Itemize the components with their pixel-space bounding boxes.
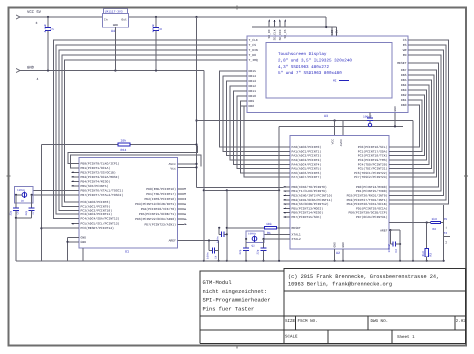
svg-text:PB4(PCINT4/MISO): PB4(PCINT4/MISO) (81, 179, 111, 183)
svg-text:10k: 10k (121, 139, 127, 143)
svg-text:SIZE: SIZE (285, 319, 296, 324)
svg-text:DB12: DB12 (249, 84, 257, 88)
svg-text:DB9: DB9 (249, 99, 255, 103)
svg-text:16MHz: 16MHz (248, 233, 256, 236)
svg-text:4,3" SSD1963 480x272: 4,3" SSD1963 480x272 (278, 64, 329, 70)
svg-text:RESET: RESET (292, 226, 301, 230)
svg-text:PD0(RXD/PCINT16): PD0(RXD/PCINT16) (146, 187, 176, 191)
svg-text:GND: GND (27, 66, 35, 71)
svg-text:U4: U4 (111, 29, 115, 34)
svg-text:VCC 5V: VCC 5V (27, 10, 42, 15)
svg-text:Vcc: Vcc (170, 167, 176, 171)
svg-text:PB3(PCINT3/OC2A/MOSI): PB3(PCINT3/OC2A/MOSI) (81, 175, 120, 179)
svg-text:GND: GND (342, 242, 345, 248)
svg-text:DB2: DB2 (401, 93, 407, 97)
svg-text:GND: GND (81, 240, 87, 244)
svg-text:PC3(ADC3/PCINT11): PC3(ADC3/PCINT11) (81, 212, 113, 216)
svg-text:DB15: DB15 (249, 69, 257, 73)
svg-text:C7: C7 (32, 211, 35, 215)
svg-text:SD_CS: SD_CS (284, 29, 287, 38)
svg-text:PC6(RESET/PCINT14): PC6(RESET/PCINT14) (81, 226, 115, 230)
svg-text:PB7(PCINT7/XTAL2/TOSC2): PB7(PCINT7/XTAL2/TOSC2) (81, 193, 124, 197)
svg-text:DB8: DB8 (249, 104, 255, 108)
svg-text:10k: 10k (266, 222, 272, 226)
svg-text:100nF: 100nF (152, 24, 155, 33)
svg-text:U3: U3 (324, 114, 328, 119)
svg-text:PD7(PCINT23/AIN1): PD7(PCINT23/AIN1) (144, 222, 176, 226)
svg-text:Q2: Q2 (252, 244, 256, 247)
svg-text:3: 3 (36, 21, 38, 25)
svg-text:22p: 22p (257, 249, 260, 254)
svg-text:C4: C4 (214, 255, 217, 259)
svg-text:SCALE: SCALE (285, 334, 298, 339)
svg-text:DB1: DB1 (401, 98, 407, 102)
svg-text:PB5(SCK/PCINT5): PB5(SCK/PCINT5) (81, 184, 109, 188)
svg-text:T3: T3 (444, 232, 448, 235)
svg-text:10963 Berlin, frank@brennecke.: 10963 Berlin, frank@brennecke.org (288, 281, 392, 287)
svg-text:LED: LED (331, 29, 334, 35)
svg-text:Q1: Q1 (21, 199, 25, 202)
svg-text:AVCC: AVCC (340, 139, 343, 146)
svg-text:4: 4 (37, 77, 39, 81)
svg-text:T_DO: T_DO (249, 53, 257, 57)
svg-text:22p: 22p (25, 210, 28, 215)
svg-text:RD: RD (403, 53, 407, 57)
svg-text:DB6: DB6 (401, 73, 407, 77)
svg-text:PD7(OC2A/PCINT31): PD7(OC2A/PCINT31) (356, 215, 388, 219)
svg-text:AREF: AREF (380, 229, 388, 233)
svg-text:C6: C6 (17, 211, 20, 215)
svg-text:PC7(TOSC2/PCINT23): PC7(TOSC2/PCINT23) (354, 175, 388, 179)
svg-text:SD_DIN: SD_DIN (279, 29, 282, 40)
svg-text:DB0: DB0 (401, 103, 407, 107)
svg-text:PB6(PCINT6/XTAL1/TOSC1): PB6(PCINT6/XTAL1/TOSC1) (81, 188, 124, 192)
svg-text:100n: 100n (206, 252, 209, 259)
svg-text:R2: R2 (433, 228, 437, 231)
svg-text:PC0(ADC0/PCINT8): PC0(ADC0/PCINT8) (81, 200, 111, 204)
svg-text:nicht eingezeichnet:: nicht eingezeichnet: (203, 289, 268, 295)
svg-text:(c) 2015 Frank Brennecke, Gros: (c) 2015 Frank Brennecke, Grossbeerenstr… (288, 274, 439, 280)
svg-text:RESET: RESET (397, 61, 406, 65)
svg-text:SPI-Programmierheader: SPI-Programmierheader (203, 298, 271, 304)
svg-text:GND: GND (394, 106, 397, 112)
svg-text:PC5(ADC5/SCL/PCINT13): PC5(ADC5/SCL/PCINT13) (81, 222, 120, 226)
svg-text:Out: Out (121, 19, 127, 22)
svg-text:PB2(PCINT2/SS/OC1B): PB2(PCINT2/SS/OC1B) (81, 170, 116, 174)
svg-text:PB0(PCINT0/CLKO/ICP1): PB0(PCINT0/CLKO/ICP1) (81, 161, 120, 165)
svg-text:DB10: DB10 (249, 94, 257, 98)
svg-text:T_DIN: T_DIN (249, 48, 258, 52)
svg-text:U2: U2 (336, 251, 340, 256)
svg-text:2.02: 2.02 (456, 319, 467, 324)
svg-text:PC4(ADC4/SDA/PCINT12): PC4(ADC4/SDA/PCINT12) (81, 217, 120, 221)
svg-text:XTAL2: XTAL2 (292, 237, 301, 241)
svg-text:In: In (104, 19, 108, 22)
svg-text:VCC: VCC (332, 139, 335, 145)
svg-text:PD2(INT0/PCINT18): PD2(INT0/PCINT18) (144, 197, 176, 201)
svg-text:DB13: DB13 (249, 79, 257, 83)
svg-text:DB5: DB5 (401, 78, 407, 82)
svg-text:22p: 22p (239, 249, 242, 254)
svg-text:XTAL1: XTAL1 (292, 232, 301, 236)
svg-text:DB3: DB3 (401, 88, 407, 92)
svg-text:DB11: DB11 (249, 89, 257, 93)
svg-text:PA7(ADC7/PCINT7): PA7(ADC7/PCINT7) (292, 175, 322, 179)
svg-text:C5: C5 (50, 28, 54, 31)
svg-text:T_CS: T_CS (249, 43, 257, 47)
svg-text:C2: C2 (395, 249, 398, 253)
svg-text:SD_CLK: SD_CLK (274, 29, 277, 40)
svg-text:MI: MI (333, 80, 337, 83)
svg-text:T_IRQ: T_IRQ (249, 58, 258, 62)
svg-text:DB14: DB14 (249, 74, 257, 78)
svg-text:2: 2 (445, 241, 447, 245)
svg-text:22p: 22p (9, 210, 12, 215)
svg-text:RS: RS (403, 43, 407, 47)
svg-text:+5V: +5V (336, 29, 339, 35)
svg-text:GND: GND (113, 24, 119, 27)
svg-text:100nF: 100nF (388, 244, 391, 253)
svg-text:3k3: 3k3 (421, 251, 425, 256)
svg-text:Pins fuer Taster: Pins fuer Taster (203, 306, 255, 312)
svg-text:PB7(PCINT15/SCK): PB7(PCINT15/SCK) (292, 215, 322, 219)
svg-text:GTM-Modul: GTM-Modul (203, 280, 232, 286)
svg-text:FSCM NO.: FSCM NO. (298, 319, 318, 324)
svg-text:C8: C8 (158, 28, 162, 31)
svg-text:AREF: AREF (169, 239, 177, 243)
svg-text:1k8: 1k8 (432, 217, 438, 221)
svg-text:R3: R3 (430, 253, 433, 257)
svg-text:SD_DO: SD_DO (268, 29, 271, 38)
svg-text:DB7: DB7 (401, 68, 407, 72)
svg-text:PD3(PCINT19/OC2B/INT1): PD3(PCINT19/OC2B/INT1) (135, 202, 176, 206)
svg-text:DB4: DB4 (401, 83, 407, 87)
svg-text:PD5(PCINT21/OC0B/T1): PD5(PCINT21/OC0B/T1) (139, 212, 176, 216)
svg-text:LM1117-3V3: LM1117-3V3 (105, 10, 123, 13)
svg-text:R24: R24 (121, 148, 127, 152)
svg-text:PD1(TXD/PCINT17): PD1(TXD/PCINT17) (146, 192, 176, 196)
svg-text:100n: 100n (217, 236, 220, 243)
svg-text:U1: U1 (125, 250, 129, 255)
svg-text:Touchscreen Display: Touchscreen Display (278, 51, 327, 57)
svg-text:CS: CS (403, 38, 407, 42)
svg-text:T_CLK: T_CLK (249, 38, 258, 42)
svg-text:PD4(PCINT20/XCK/T0): PD4(PCINT20/XCK/T0) (141, 207, 176, 211)
svg-text:GND: GND (334, 242, 337, 248)
svg-text:4.7uF: 4.7uF (44, 24, 47, 33)
svg-text:PD6(PCINT22/OC0A/AIN0): PD6(PCINT22/OC0A/AIN0) (135, 217, 176, 221)
svg-text:5" und 7" SSD1963 800x480: 5" und 7" SSD1963 800x480 (278, 70, 342, 76)
svg-text:WR: WR (403, 48, 407, 52)
svg-text:DWG NO.: DWG NO. (371, 319, 389, 324)
svg-text:PB1(PCINT1/OC1A): PB1(PCINT1/OC1A) (81, 166, 111, 170)
svg-text:2,8" und 3,5" ILI9325 320x240: 2,8" und 3,5" ILI9325 320x240 (278, 58, 352, 64)
